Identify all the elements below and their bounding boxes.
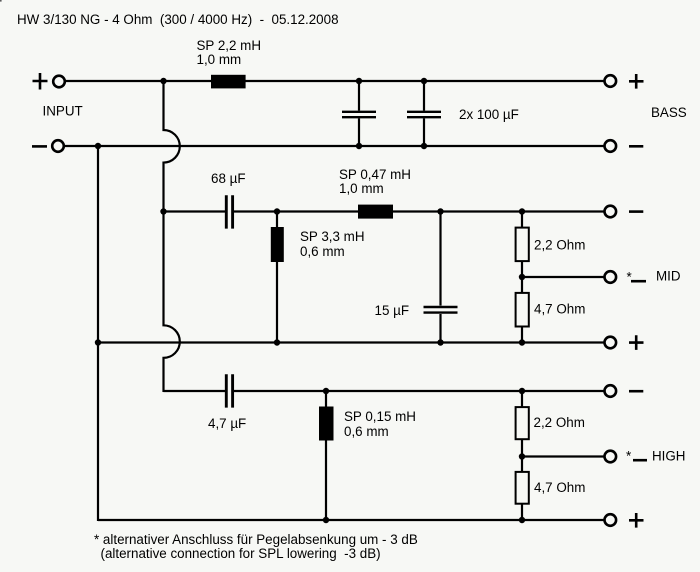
svg-text:68 µF: 68 µF [211,171,246,186]
svg-text:0,6 mm: 0,6 mm [344,424,389,439]
svg-text:HW 3/130 NG - 4 Ohm (300 / 40: HW 3/130 NG - 4 Ohm (300 / 4000 Hz) - 05… [17,12,339,27]
svg-text:1,0 mm: 1,0 mm [197,52,242,67]
svg-text:SP 0,47 mH: SP 0,47 mH [339,167,411,182]
svg-text:4,7 Ohm: 4,7 Ohm [534,480,585,495]
svg-text:15 µF: 15 µF [375,303,410,318]
svg-text:BASS: BASS [651,105,687,120]
svg-text:SP 0,15 mH: SP 0,15 mH [344,409,416,424]
svg-text:2,2 Ohm: 2,2 Ohm [534,238,585,253]
svg-text:4,7 µF: 4,7 µF [208,416,246,431]
svg-text:*: * [626,448,631,463]
svg-text:*: * [627,270,632,285]
svg-text:SP 2,2 mH: SP 2,2 mH [197,38,262,53]
svg-text:MID: MID [656,269,681,284]
svg-text:0,6 mm: 0,6 mm [300,244,345,259]
svg-text:4,7 Ohm: 4,7 Ohm [534,302,585,317]
svg-text:1,0 mm: 1,0 mm [339,181,384,196]
svg-text:INPUT: INPUT [43,104,83,119]
svg-text:* alternativer Anschluss für P: * alternativer Anschluss für Pegelabsenk… [94,532,418,547]
svg-text:2,2 Ohm: 2,2 Ohm [534,415,585,430]
svg-text:2x 100 µF: 2x 100 µF [459,107,519,122]
svg-text:SP 3,3 mH: SP 3,3 mH [300,229,365,244]
svg-text:(alternative connection for SP: (alternative connection for SPL lowering… [101,546,381,561]
svg-text:HIGH: HIGH [652,449,685,464]
